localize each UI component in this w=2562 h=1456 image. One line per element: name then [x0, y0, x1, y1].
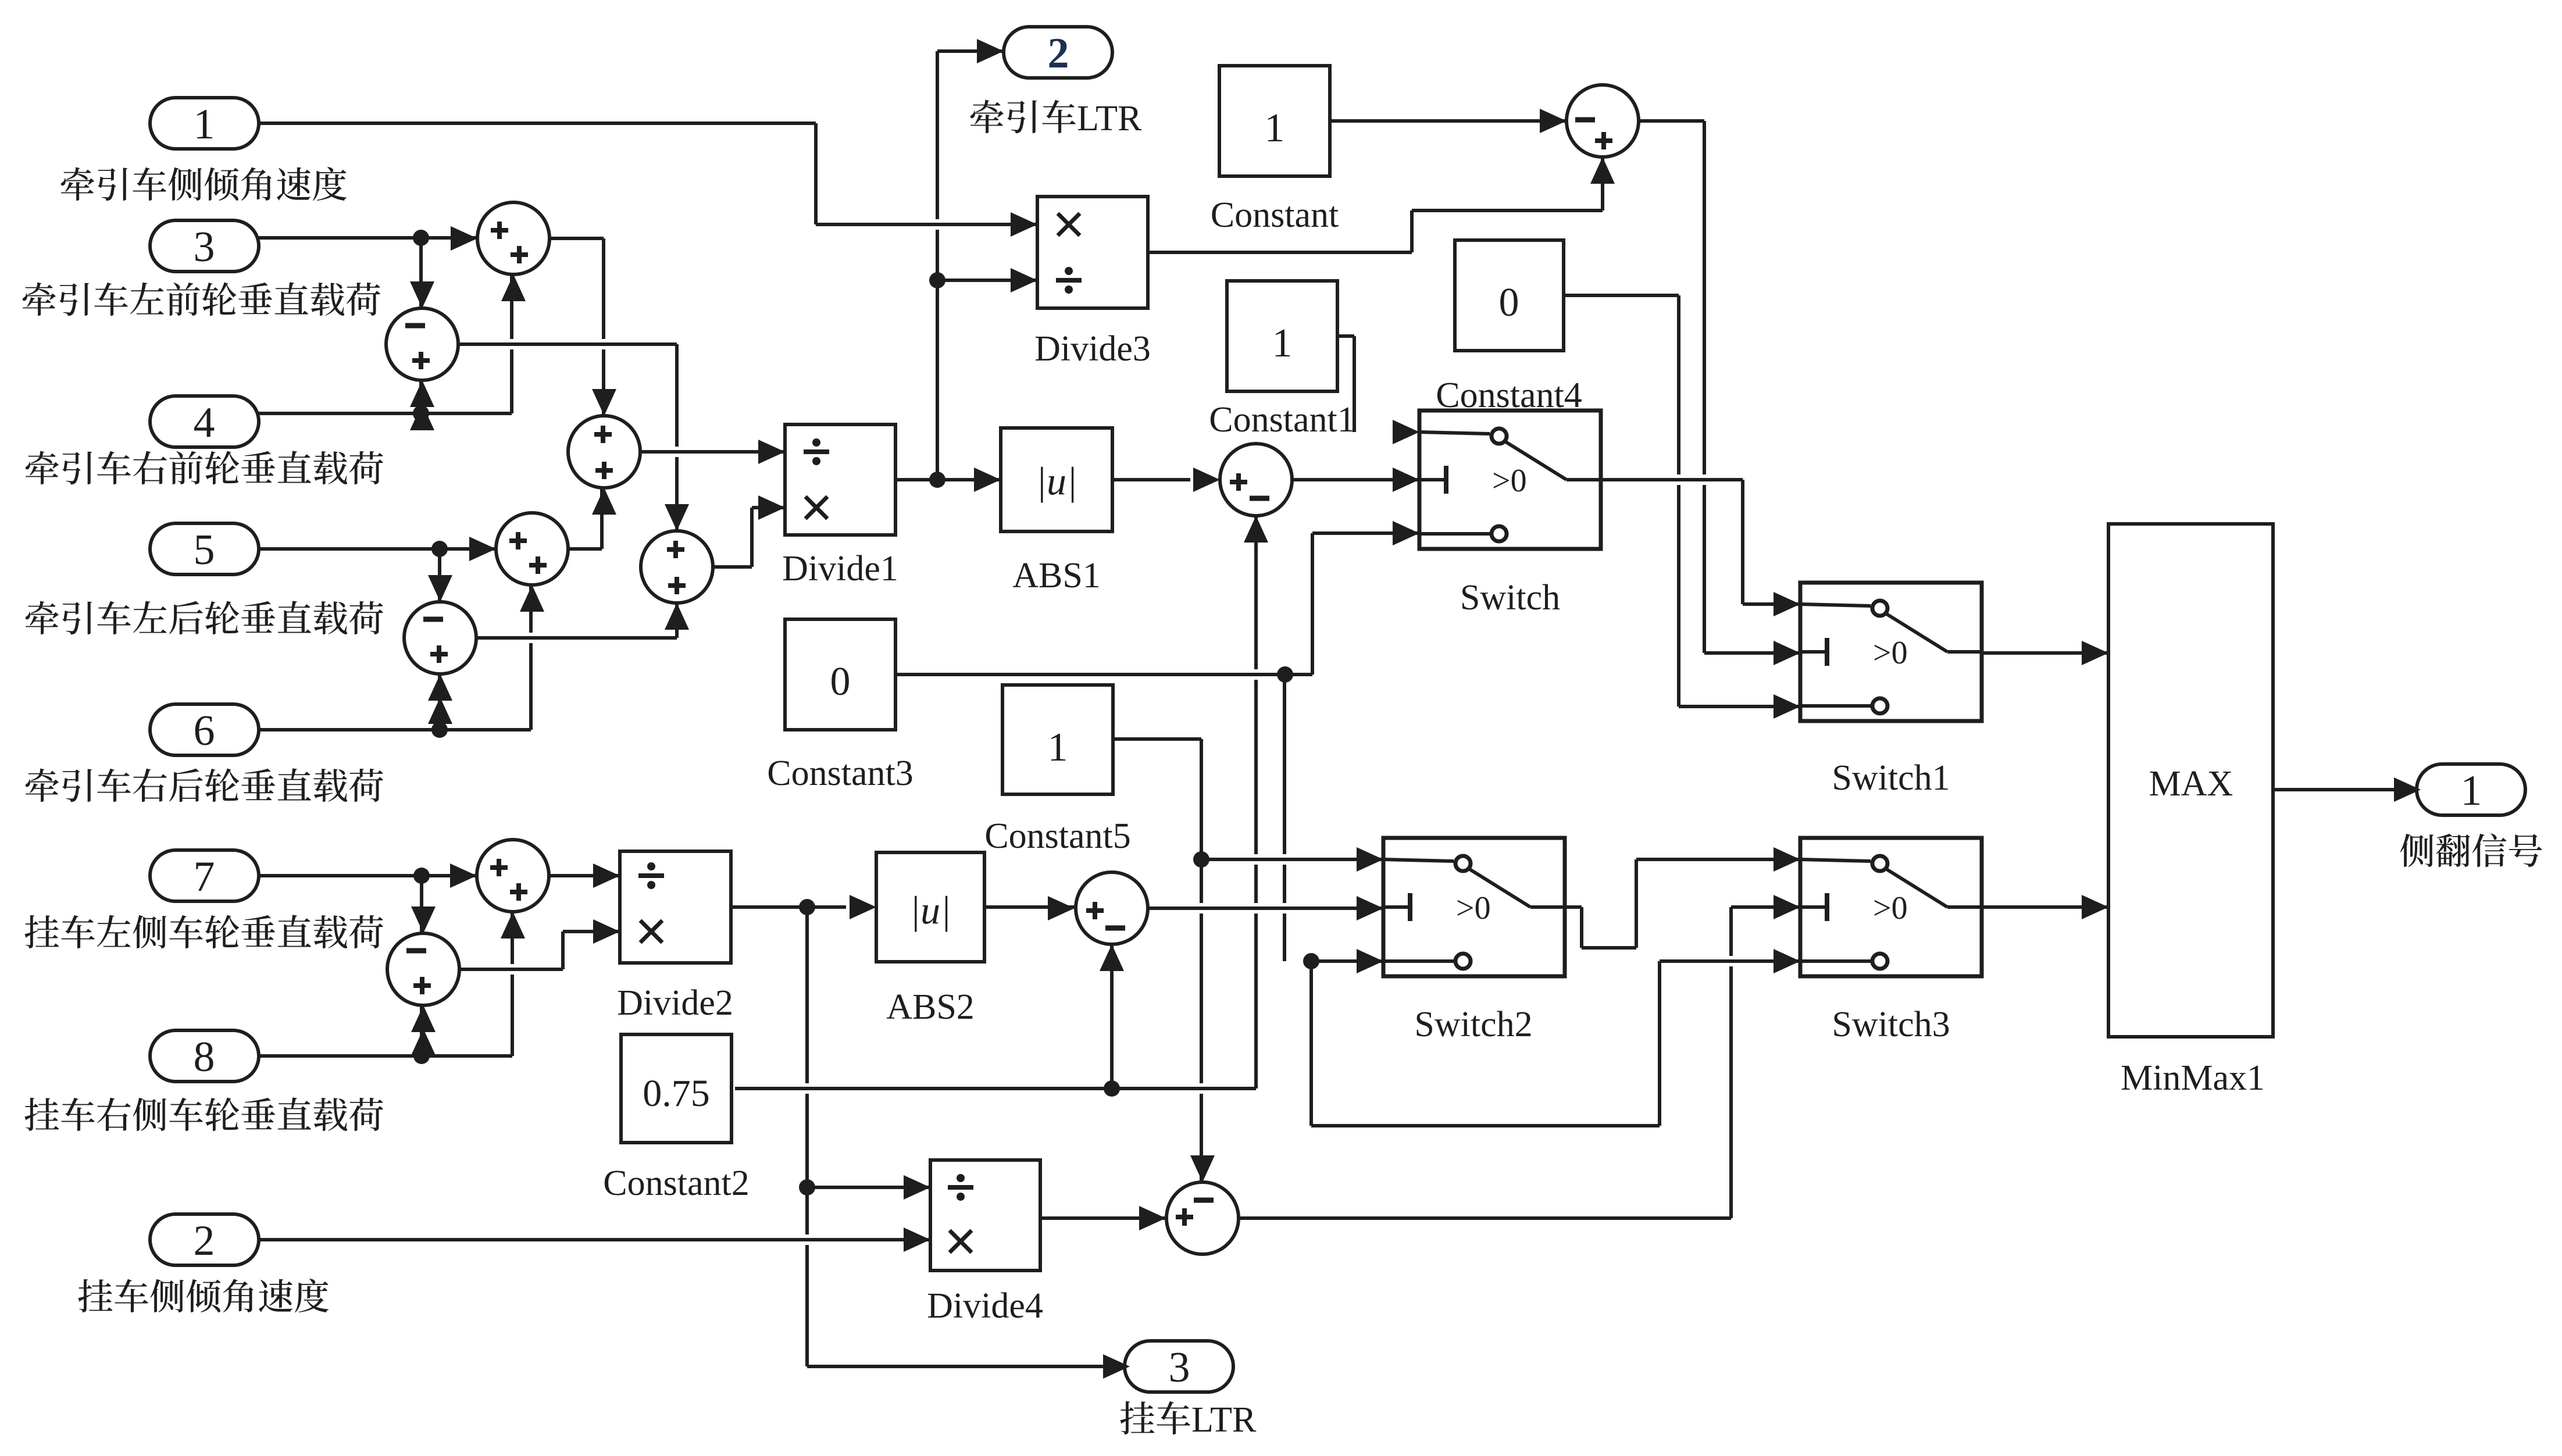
wire Sum10 out up to Switch3 mid	[1729, 907, 1733, 1218]
wire port2 to Divide4 times	[274, 1234, 915, 1245]
wire Constant2 up to Sum9 minus	[1110, 944, 1114, 1089]
wire to Switch bottom	[1312, 531, 1419, 535]
wire to Divide2 times	[563, 930, 620, 933]
abs ABS2	[876, 852, 984, 962]
label trailer left wheel load	[24, 915, 383, 948]
wire port1 to Divide3 times	[274, 118, 801, 129]
wire port8 to riser	[259, 1054, 512, 1058]
arrowhead into Switch input1	[1393, 420, 1419, 444]
junction port7 branch	[413, 868, 430, 884]
svg-text:Divide4: Divide4	[927, 1286, 1043, 1326]
arrowhead into Add4	[450, 863, 477, 888]
wire Sum3 out to Divide1 divide	[655, 447, 770, 457]
wire port1 down to Divide3	[814, 123, 818, 224]
minmax MinMax1 (MAX)	[2108, 524, 2273, 1037]
wire MinMax1 out to out1	[2288, 784, 2406, 795]
arrowhead into Divide1 times	[758, 495, 785, 520]
wire riser port8 to Sum11 bottom	[511, 912, 514, 1056]
svg-text:Switch1: Switch1	[1832, 758, 1950, 798]
svg-text:5: 5	[194, 526, 215, 574]
label trailer LTR	[1120, 1401, 1190, 1434]
arrowhead into Add1	[469, 537, 496, 561]
svg-text:Constant1: Constant1	[1209, 400, 1355, 440]
svg-text:|u|: |u|	[909, 888, 951, 932]
svg-text:Switch3: Switch3	[1832, 1005, 1950, 1044]
svg-text:1: 1	[1272, 321, 1293, 366]
sum Add1 (port5+port6)	[496, 513, 568, 585]
svg-text:Constant5: Constant5	[984, 816, 1130, 856]
arrowhead into output port 3	[1103, 1354, 1130, 1379]
arrowhead into Subtract6	[1139, 1206, 1166, 1230]
arrowhead into Subtract2 bottom	[1590, 157, 1615, 184]
arrowhead into Divide2 divide	[593, 863, 620, 888]
label tractor FR wheel load	[26, 451, 383, 484]
arrowhead into Divide4 divide	[904, 1175, 930, 1200]
label trailer roll rate	[78, 1279, 329, 1312]
arrowhead into output port 1	[2394, 777, 2421, 802]
svg-text:1: 1	[1265, 106, 1285, 151]
wire to Sum7 bottom	[1412, 209, 1603, 212]
wire Constant5 down to Sum10 minus	[1200, 739, 1203, 1182]
svg-text:Divide3: Divide3	[1034, 329, 1151, 369]
sum Add4 (port7+port8)	[477, 840, 549, 912]
constant Constant2 (0.75)	[621, 1034, 732, 1143]
wire Constant1 down to Switch top	[1353, 336, 1356, 432]
sum Add (port3+port4)	[477, 202, 549, 274]
arrowhead into Subtract4 top	[411, 907, 436, 933]
wire Sum12 out	[474, 964, 548, 975]
wire Sum5 out	[713, 565, 752, 569]
switch Switch	[1419, 411, 1601, 549]
svg-text:ABS1: ABS1	[1012, 556, 1101, 595]
svg-text:7: 7	[194, 853, 215, 901]
input port 6	[150, 704, 259, 755]
wire Sum2 out down to Sum5 top	[675, 344, 679, 531]
wire to Switch1 top	[1743, 602, 1800, 606]
arrowhead into Subtract5 bottom	[1100, 944, 1124, 971]
wire Switch1 out to MinMax1	[1997, 648, 2093, 658]
double arrowhead into Subtract bottom	[410, 380, 434, 407]
arrowhead into Subtract2	[1540, 109, 1567, 133]
wire to Divide1 times	[752, 506, 785, 509]
svg-text:MinMax1: MinMax1	[2121, 1058, 2265, 1098]
wire Sum6 out	[491, 633, 662, 643]
svg-text:Constant: Constant	[1211, 195, 1339, 235]
wire node to out3	[822, 1361, 1115, 1372]
input port 5	[150, 523, 259, 574]
wire riser port4 to Sum1 bottom	[510, 274, 513, 413]
wire Sum7 out	[1639, 119, 1704, 123]
arrowhead into Subtract6 top	[1190, 1155, 1215, 1182]
wire Divide1 out to ABS1	[911, 474, 986, 485]
junction port3 branch	[413, 230, 429, 246]
svg-text:0.75: 0.75	[643, 1072, 710, 1115]
wire port1 down-leg to Divide3 times	[831, 219, 1022, 230]
arrowhead into ABS2	[850, 895, 876, 919]
label tractor RL wheel load	[26, 601, 383, 634]
arrowhead into Switch3 input1	[1774, 847, 1800, 872]
arrowhead into Switch2 input3	[1357, 949, 1383, 973]
wire Sum12 out jog up	[561, 932, 565, 969]
sum Subtract1 (port5-port6)	[404, 602, 476, 674]
wire Constant2 riser up to Sum8 minus	[1254, 516, 1258, 1089]
svg-text:|u|: |u|	[1036, 459, 1077, 503]
svg-text:>0: >0	[1456, 890, 1491, 926]
wire port6 to riser	[259, 728, 531, 731]
wire Sum9 out to Switch2 mid	[1164, 903, 1368, 913]
wire ABS2 out to Sum9	[984, 905, 1075, 909]
arrowhead into Add	[451, 226, 477, 251]
arrowhead into Add bottom	[501, 274, 526, 301]
divide Divide3	[1037, 197, 1148, 308]
wire Sum1 out	[549, 237, 604, 240]
wire Sum7 out down to Switch1 mid	[1703, 121, 1706, 653]
switch Switch1	[1800, 583, 1982, 721]
wire zero-net across	[1326, 1120, 1644, 1131]
wire Sum1 out down to Sum3 top	[602, 238, 605, 416]
arrowhead into Switch3 threshold	[1774, 895, 1800, 919]
svg-text:6: 6	[194, 707, 215, 755]
junction port4 branch	[413, 405, 429, 422]
wire Sum10 out	[1254, 1213, 1716, 1223]
wire Constant3 out	[911, 669, 1297, 680]
arrowhead into Switch input3	[1393, 521, 1419, 545]
arrowhead into Divide1 divide	[758, 440, 785, 464]
junction to Divide3 divide	[929, 272, 945, 288]
wire Sum5 out up to Divide1 times	[750, 508, 754, 567]
wire port8 junction up to Sum12 plus	[420, 1005, 423, 1056]
divide Divide1	[785, 424, 895, 535]
wire Switch3 out to MinMax1	[1997, 902, 2093, 912]
svg-text:3: 3	[194, 223, 215, 271]
label tractor roll rate	[61, 167, 347, 201]
arrowhead into Switch3 input3	[1774, 949, 1800, 973]
wire Constant2 out	[750, 1083, 1241, 1094]
wire to Switch1 mid	[1704, 651, 1800, 655]
wire Sum4 out	[568, 547, 602, 551]
wire Divide4 out to Sum10	[1040, 1216, 1166, 1220]
double arrowhead into Subtract1 bottom	[428, 674, 452, 701]
svg-text:0: 0	[830, 659, 851, 704]
arrowhead into ABS1	[974, 468, 1001, 492]
wire ABS1 out to Sum8	[1112, 478, 1190, 481]
wire node vertical Divide2-out down to out3	[805, 907, 809, 1366]
wire Constant3 down to Switch2 bottom	[1283, 675, 1286, 961]
wire Divide2 out to ABS2	[746, 902, 831, 912]
svg-text:ABS2: ABS2	[886, 987, 975, 1027]
label trailer right wheel load	[24, 1097, 383, 1131]
svg-text:Constant2: Constant2	[603, 1164, 749, 1203]
constant Constant (1)	[1219, 66, 1330, 176]
input port 4	[150, 396, 259, 447]
wire Sum6 out up to Sum5 bottom	[675, 603, 679, 638]
wire port4 junction up to Sum2 plus	[419, 380, 423, 413]
constant Constant3 (0)	[785, 619, 895, 730]
arrowhead into Subtract1 top	[428, 575, 452, 602]
svg-text:MAX: MAX	[2149, 764, 2233, 804]
output port 3 (LTR trailer)	[1125, 1341, 1233, 1392]
arrowhead into Subtract3	[1193, 468, 1220, 492]
arrowhead into Add2 bottom	[592, 488, 616, 515]
svg-text:Divide2: Divide2	[617, 983, 733, 1023]
junction to Divide4	[799, 1179, 815, 1196]
divide Divide2	[620, 851, 731, 963]
input port 1	[150, 98, 259, 149]
svg-text:>0: >0	[1873, 635, 1908, 671]
wire port6 junction up to Sum6 plus	[438, 674, 441, 730]
junction port6 branch	[431, 722, 448, 738]
wire Sum2 out	[473, 339, 662, 349]
svg-text:Switch: Switch	[1460, 578, 1560, 618]
constant Constant1 (1)	[1227, 281, 1337, 391]
wire node to Divide3 divide	[937, 279, 1037, 282]
junction zero net at Switch2	[1303, 953, 1319, 969]
arrowhead into Divide3 times	[1011, 212, 1037, 237]
wire node to Divide4 divide	[807, 1186, 930, 1189]
wire port5 to Sum4	[259, 547, 496, 551]
sum Subtract (port3-port4)	[386, 308, 458, 380]
svg-text:0: 0	[1499, 280, 1519, 325]
junction Constant5 net	[1193, 851, 1209, 868]
wire Sum4 out up to Sum3 bottom	[600, 488, 604, 549]
arrowhead into Switch1 input3	[1774, 694, 1800, 719]
sum Subtract4 (port7-port8)	[387, 933, 459, 1005]
wire to Switch3 top	[1651, 854, 1785, 865]
abs ABS1	[1001, 428, 1112, 531]
arrowhead into Divide2 times	[593, 919, 620, 944]
constant Constant5 (1)	[1002, 685, 1113, 794]
wire Sum11 out to Divide2 divide	[549, 874, 620, 877]
svg-text:2: 2	[194, 1217, 215, 1265]
switch Switch2	[1383, 838, 1565, 976]
wire Divide3 out	[1163, 247, 1397, 258]
arrowhead into MinMax1 input1	[2082, 641, 2108, 665]
wire port3 to Sum1	[259, 236, 477, 240]
arrowhead into Add1 bottom	[520, 585, 544, 612]
label rollover signal	[2400, 833, 2542, 867]
arrowhead into Switch threshold	[1393, 468, 1419, 492]
wire Switch2 out jog	[1582, 946, 1636, 950]
label tractor FL wheel load	[23, 282, 380, 316]
svg-text:LTR: LTR	[1077, 99, 1142, 138]
wire Switch out down to Switch1 top	[1741, 480, 1744, 604]
wire Constant4 down to Switch1 bottom	[1677, 295, 1680, 706]
constant Constant4 (0)	[1455, 240, 1564, 351]
svg-text:>0: >0	[1873, 890, 1908, 926]
junction port8 branch	[413, 1048, 430, 1064]
wire riser port6 to Sum4 bottom	[529, 585, 533, 730]
junction Divide1 output	[929, 472, 945, 488]
arrowhead into Switch1 input1	[1774, 592, 1800, 616]
wire Constant3 up to Switch bottom	[1311, 533, 1314, 675]
junction Divide2 output	[799, 899, 815, 915]
wire node vertical Divide1-out up to out2	[936, 51, 939, 480]
wire Switch2 out jog down	[1580, 907, 1583, 948]
switch Switch3	[1800, 838, 1982, 976]
wire Constant to Sum7	[1345, 116, 1551, 126]
junction Constant3 net	[1277, 666, 1293, 683]
svg-text:8: 8	[194, 1033, 215, 1081]
junction port5 branch	[431, 541, 448, 557]
wire to Switch3 mid	[1731, 905, 1800, 909]
wire port3 junction down to Sum2 minus	[419, 238, 423, 308]
svg-text:Switch2: Switch2	[1414, 1005, 1532, 1044]
sum Subtract2 (1 - x)	[1567, 85, 1639, 157]
label tractor LTR	[970, 100, 1076, 134]
svg-text:Divide1: Divide1	[782, 549, 898, 588]
svg-text:4: 4	[194, 399, 215, 447]
label tractor RR wheel load	[26, 768, 383, 802]
svg-text:1: 1	[2461, 767, 2482, 815]
arrowhead into Subtract top	[410, 281, 434, 308]
wire Constant1 out	[1337, 334, 1354, 338]
wire port5 junction down to Sum6 minus	[438, 549, 441, 602]
wire to out2	[937, 49, 1004, 53]
arrowhead into Add2 top	[592, 389, 616, 416]
svg-text:Constant4: Constant4	[1436, 376, 1582, 415]
junction Constant2 net	[1104, 1080, 1120, 1097]
wire port4 to riser	[259, 412, 512, 415]
sum Add2 (front+rear)	[568, 416, 640, 488]
svg-text:3: 3	[1169, 1344, 1190, 1391]
wire zero-net up to Switch3 bottom	[1658, 961, 1661, 1126]
wire zero-net to Switch3 bottom	[1675, 956, 1785, 966]
wire Constant4 out	[1564, 294, 1679, 297]
arrowhead into Add3 top	[665, 504, 689, 531]
wire Constant5 out	[1113, 737, 1201, 741]
double arrowhead into Subtract4 bottom	[411, 1005, 436, 1032]
svg-text:>0: >0	[1492, 463, 1527, 499]
arrowhead into Divide3 divide	[1011, 268, 1037, 292]
arrowhead into MinMax1 input2	[2082, 895, 2108, 919]
wire to Switch1 bottom	[1679, 705, 1800, 708]
sum Add3 (diff total)	[641, 531, 713, 603]
output port 1 (rollover signal)	[2417, 764, 2525, 815]
sum Subtract5 (|u|-0.75 trailer)	[1076, 872, 1148, 944]
divide Divide4	[930, 1160, 1040, 1271]
svg-text:1: 1	[194, 101, 215, 148]
svg-text:1: 1	[1048, 725, 1068, 770]
arrowhead into Divide4 times	[904, 1227, 930, 1252]
arrowhead into Switch2 threshold	[1357, 896, 1383, 920]
wire Divide3-out jog up	[1410, 210, 1414, 252]
wire port7 junction down to Sum12 minus	[420, 876, 423, 933]
svg-text:LTR: LTR	[1191, 1400, 1257, 1440]
arrowhead into output port 2	[977, 39, 1004, 63]
input port 8	[150, 1030, 259, 1082]
sum Subtract6 (x - LTR trailer)	[1166, 1182, 1239, 1254]
arrowhead into Add3 bottom	[665, 603, 689, 630]
arrowhead into Add4 bottom	[501, 912, 525, 938]
svg-text:2: 2	[1048, 30, 1069, 77]
input port 3	[150, 220, 259, 272]
wire zero-net down	[1309, 961, 1313, 1126]
input port 2	[150, 1214, 259, 1265]
sum Subtract3 (|u|-0.75)	[1220, 444, 1292, 516]
arrowhead into Subtract3 bottom	[1244, 516, 1268, 543]
arrowhead into Switch2 input1	[1357, 847, 1383, 872]
input port 7	[150, 850, 259, 901]
wire Switch2 out jog up	[1635, 859, 1638, 948]
svg-text:Constant3: Constant3	[767, 754, 913, 793]
wire Constant5 net to Switch2 top	[1216, 854, 1368, 865]
arrowhead into Switch1 threshold	[1774, 641, 1800, 665]
output port 2 (LTR tractor)	[1004, 27, 1112, 78]
wire Switch out	[1616, 474, 1728, 485]
wire into Sum7 bottom	[1601, 157, 1604, 210]
wire zero-net to Switch2 bottom	[1311, 959, 1383, 963]
wire Sum8 out to Switch mid	[1307, 474, 1404, 485]
wire port7 to Sum11	[259, 874, 477, 877]
wire Switch2 out	[1565, 905, 1582, 909]
arrowhead into Subtract5	[1048, 896, 1075, 920]
